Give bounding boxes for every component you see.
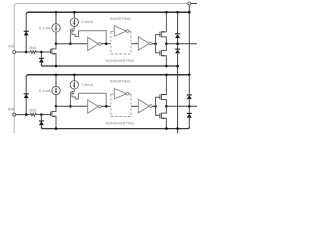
wire 0.1mA to drain node B bbox=[55, 95, 57, 107]
svg-text:0.1mA: 0.1mA bbox=[39, 26, 51, 31]
bubble B3 bbox=[149, 105, 152, 108]
wire Q2B gate to signal B bbox=[69, 96, 71, 106]
node rail 0.6mA A bbox=[73, 11, 76, 14]
current source 0.1mA A bbox=[52, 24, 60, 32]
node out B bbox=[165, 105, 168, 108]
node gate signal B bbox=[69, 105, 72, 108]
V+ rail A bbox=[28, 11, 190, 13]
arrow output pmos A bbox=[162, 31, 164, 33]
node nmos rail B bbox=[165, 127, 168, 130]
device outline box bbox=[14, 4, 189, 134]
node rail 0.6mA B bbox=[73, 74, 76, 77]
node t1 out A bbox=[105, 42, 108, 45]
bubble B1 bbox=[98, 105, 101, 108]
wire input clamp diode column B bbox=[25, 77, 27, 115]
node input A bbox=[25, 51, 28, 54]
wire clamp bottom A + V- bus down to B bbox=[177, 53, 179, 133]
node rail 0.1mA A bbox=[55, 11, 58, 14]
dashed select box B bbox=[111, 94, 131, 117]
diode V- -to-input B bbox=[39, 120, 44, 125]
wire rail to 0.6mA B bbox=[73, 75, 75, 81]
diode clamp lower B bbox=[187, 113, 192, 118]
node rail 0.1mA B bbox=[55, 74, 58, 77]
wire clamp mid A bbox=[177, 38, 179, 49]
op-amp B2 inverting bbox=[114, 88, 126, 99]
node after resistor A bbox=[40, 51, 43, 54]
wire out B to right edge bbox=[166, 105, 197, 107]
wire out A to right edge bbox=[166, 43, 197, 45]
svg-text:NONINVERTING: NONINVERTING bbox=[105, 59, 134, 63]
V- bus B segment node bbox=[176, 127, 179, 130]
node source rail B bbox=[55, 127, 58, 130]
node out A bbox=[165, 42, 168, 45]
op-amp A1 first stage bbox=[88, 37, 99, 50]
node gate trunk B bbox=[154, 105, 157, 108]
current source 0.1mA B bbox=[52, 86, 60, 94]
op-amp B1 first stage bbox=[88, 100, 99, 113]
node t1 out B bbox=[105, 105, 108, 108]
svg-text:0.6mA: 0.6mA bbox=[82, 82, 94, 87]
svg-text:2kΩ: 2kΩ bbox=[29, 107, 36, 112]
op-amp B3 buffer bbox=[138, 99, 149, 113]
wire lower clamp diode column B bbox=[40, 115, 42, 129]
wire rail to 0.1mA A bbox=[55, 12, 57, 23]
op-amp A2 inverting A bbox=[114, 26, 126, 37]
V+ rail B bbox=[28, 74, 190, 76]
wire dashed box to t3 B bbox=[131, 105, 138, 107]
wire B1 to dashed box B bbox=[101, 105, 111, 107]
bubble A1 bbox=[98, 43, 101, 46]
wire node to gate A bbox=[41, 51, 50, 53]
V+ rail B left corner bbox=[26, 75, 28, 77]
svg-text:INA: INA bbox=[8, 44, 15, 49]
level shift transistor Q2A bbox=[70, 27, 78, 37]
node source rail A bbox=[55, 65, 58, 68]
arrow output nmos B bbox=[162, 118, 164, 120]
node clamp out B bbox=[188, 105, 191, 108]
wire clamp bottom B to V- rail corner bbox=[188, 118, 190, 128]
wire clamp mid B bbox=[188, 99, 190, 113]
wire rail to 0.1mA B bbox=[55, 75, 57, 86]
arrow output pmos B bbox=[162, 94, 164, 96]
node gate signal A bbox=[69, 42, 72, 45]
wire 0.1mA to drain node A bbox=[55, 32, 57, 44]
wire dashed box to t3 A bbox=[131, 43, 138, 45]
V+ pin terminal bbox=[188, 2, 191, 5]
node gate trunk A bbox=[154, 42, 157, 45]
node clamp out A bbox=[176, 42, 179, 45]
level shift transistor Q2B bbox=[70, 89, 78, 99]
diode input-to-V+ A bbox=[24, 31, 29, 36]
wire node to gate B bbox=[41, 114, 50, 116]
wire signal line B bbox=[56, 105, 88, 107]
arrow Q1B bbox=[52, 116, 54, 118]
V+ rail A left corner into clamp diode column bbox=[26, 12, 28, 14]
diode V- -to-input A bbox=[39, 58, 44, 63]
arrow Q2B bbox=[73, 93, 75, 95]
input mosfet Q1B bbox=[51, 106, 56, 128]
wire lower clamp diode column A bbox=[40, 52, 42, 66]
clamp column B on V+ feed x=189.3 bbox=[188, 75, 190, 95]
arrow output nmos A bbox=[162, 55, 164, 57]
output pmos B bbox=[156, 75, 167, 107]
wire INB to resistor bbox=[16, 114, 30, 116]
wire Q2A feed to t1 output node A bbox=[79, 31, 107, 44]
svg-text:0.1mA: 0.1mA bbox=[39, 88, 51, 93]
wire V+ pin to right edge bbox=[191, 3, 197, 5]
wire INA to resistor bbox=[16, 51, 30, 53]
input terminal INA bbox=[13, 51, 16, 54]
diode clamp lower A bbox=[175, 49, 180, 54]
arrow Q2A bbox=[73, 30, 75, 32]
output pmos A bbox=[156, 12, 167, 44]
op-amp A3 buffer bbox=[138, 37, 149, 51]
input mosfet Q1A bbox=[51, 44, 56, 66]
node drain A bbox=[55, 42, 58, 45]
node pmos rail B bbox=[165, 74, 168, 77]
V+ feed vertical P bbox=[188, 5, 190, 75]
node nmos rail A bbox=[165, 65, 168, 68]
wire B3 to gate trunk B bbox=[152, 105, 156, 107]
output nmos A bbox=[156, 44, 167, 66]
V- rail B bbox=[41, 127, 189, 129]
wire A1 to dashed box A bbox=[101, 43, 111, 45]
wire Q2B feed to t1 output node B bbox=[79, 93, 107, 106]
arrow Q1A bbox=[52, 53, 54, 55]
node V- rail A bus bbox=[176, 65, 179, 68]
wire rail to 0.6mA A bbox=[73, 12, 75, 18]
wire input clamp diode column A bbox=[25, 14, 27, 52]
input terminal INB bbox=[13, 113, 16, 116]
svg-text:2kΩ: 2kΩ bbox=[29, 45, 36, 50]
svg-text:0.6mA: 0.6mA bbox=[82, 19, 94, 24]
current source 0.6mA A bbox=[70, 18, 78, 26]
svg-text:NONINVERTING: NONINVERTING bbox=[105, 121, 134, 125]
output nmos B bbox=[156, 106, 167, 128]
wire A3 to gate trunk A bbox=[152, 43, 156, 45]
wire signal line A bbox=[56, 43, 88, 45]
node P rail B bbox=[188, 74, 191, 77]
V- rail A bbox=[41, 65, 177, 67]
resistor 2k B bbox=[30, 113, 41, 116]
current source 0.6mA B bbox=[70, 81, 78, 89]
svg-text:INB: INB bbox=[8, 106, 15, 111]
node clamp rail A bbox=[176, 11, 179, 14]
diode input-to-V+ B bbox=[24, 93, 29, 98]
diode clamp upper B bbox=[187, 94, 192, 99]
diode clamp upper A bbox=[175, 33, 180, 38]
dashed select box A bbox=[111, 31, 131, 54]
bubble A2 bbox=[126, 30, 129, 33]
bubble B2 bbox=[126, 92, 129, 95]
svg-text:INVERTING: INVERTING bbox=[110, 17, 131, 21]
node P rail A bbox=[188, 11, 191, 14]
node input B bbox=[25, 113, 28, 116]
node after resistor B bbox=[40, 113, 43, 116]
svg-text:INVERTING: INVERTING bbox=[110, 80, 131, 84]
node pmos rail A bbox=[165, 11, 168, 14]
resistor 2k A bbox=[30, 51, 41, 54]
node drain B bbox=[55, 105, 58, 108]
clamp column A x=177.6 bbox=[177, 12, 179, 33]
wire Q2A gate to signal A bbox=[69, 34, 71, 44]
bubble A3 bbox=[149, 42, 152, 45]
